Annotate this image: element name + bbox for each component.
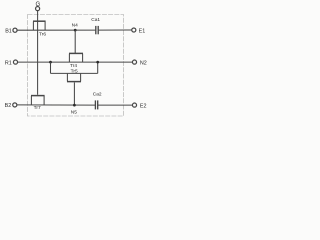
svg-text:B1: B1 bbox=[5, 28, 12, 34]
wire N4 down to Tr4 gate bbox=[74, 30, 76, 53]
svg-text:B2: B2 bbox=[5, 103, 12, 109]
wire top rail Ca1 to E1 bbox=[98, 29, 132, 31]
transistor Tr5 gate bar bbox=[67, 81, 81, 83]
node junction dot right of Tr4/Tr5 pair bbox=[96, 61, 99, 64]
svg-text:E2: E2 bbox=[140, 103, 147, 109]
svg-text:Tr6: Tr6 bbox=[39, 31, 46, 37]
svg-text:N2: N2 bbox=[140, 60, 147, 66]
capacitor Ca1 right plate bbox=[97, 26, 99, 34]
transistor Tr6 right leg bbox=[44, 22, 46, 31]
transistor Tr4 left leg bbox=[68, 54, 70, 62]
terminal B1 circle bbox=[13, 28, 17, 32]
terminal B2 circle bbox=[13, 103, 17, 107]
capacitor Ca1 left plate bbox=[95, 26, 97, 34]
transistor Tr7 right leg bbox=[43, 96, 45, 105]
dashed enclosure border bbox=[28, 15, 124, 117]
wire Tr5 gate down to N5 bbox=[73, 83, 75, 106]
capacitor Ca2 left plate bbox=[94, 100, 96, 109]
svg-text:Tr4: Tr4 bbox=[70, 63, 77, 69]
svg-text:N5: N5 bbox=[71, 110, 77, 116]
transistor Tr5 right leg bbox=[80, 74, 82, 82]
wire bottom rail B2 to Ca2 bbox=[17, 104, 96, 106]
wire gate line G down to Tr7 bbox=[37, 11, 39, 95]
svg-text:Ca2: Ca2 bbox=[93, 92, 102, 98]
wire top rail B1 to Ca1 bbox=[17, 29, 96, 31]
node N5 junction dot bbox=[73, 104, 76, 107]
wire mid rail R1 to N2 terminal bbox=[17, 61, 132, 63]
terminal E1 circle bbox=[132, 28, 136, 32]
svg-text:Tr5: Tr5 bbox=[71, 69, 78, 75]
wire lower rail of pair bbox=[51, 72, 98, 74]
svg-text:E1: E1 bbox=[139, 28, 146, 34]
terminal E2 circle bbox=[132, 103, 136, 107]
transistor Tr6 gate bar bbox=[33, 20, 46, 22]
capacitor Ca2 right plate bbox=[97, 100, 99, 109]
wire bottom rail Ca2 to E2 bbox=[98, 104, 133, 106]
transistor Tr6 left leg bbox=[32, 22, 34, 31]
node N4 junction dot bbox=[74, 29, 77, 32]
transistor Tr4 gate bar bbox=[69, 52, 83, 54]
svg-text:R1: R1 bbox=[5, 60, 12, 66]
transistor Tr4 right leg bbox=[82, 54, 84, 62]
terminal R1 circle bbox=[13, 60, 17, 64]
wire right branch up bbox=[97, 62, 99, 73]
svg-text:Ca1: Ca1 bbox=[91, 17, 100, 23]
svg-text:N4: N4 bbox=[72, 23, 78, 29]
transistor Tr7 left leg bbox=[30, 96, 32, 105]
svg-text:Tr7: Tr7 bbox=[34, 105, 41, 111]
transistor Tr5 left leg bbox=[66, 74, 68, 82]
node junction dot left of Tr4/Tr5 pair bbox=[49, 61, 52, 64]
wire left branch down bbox=[50, 62, 52, 73]
terminal N2 circle bbox=[132, 60, 136, 64]
terminal G circle bbox=[36, 7, 40, 11]
transistor Tr7 gate bar bbox=[31, 95, 45, 97]
